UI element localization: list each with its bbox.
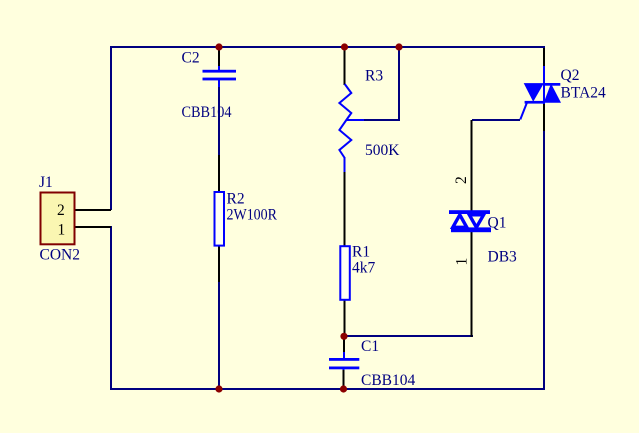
svg-text:DB3: DB3 bbox=[488, 249, 518, 266]
svg-text:1: 1 bbox=[454, 258, 471, 266]
svg-text:R1: R1 bbox=[352, 244, 370, 261]
svg-text:R3: R3 bbox=[365, 68, 383, 85]
svg-text:2: 2 bbox=[453, 176, 470, 184]
svg-text:1: 1 bbox=[58, 222, 66, 239]
svg-text:2: 2 bbox=[57, 202, 65, 219]
svg-text:4k7: 4k7 bbox=[352, 260, 376, 277]
svg-text:R2: R2 bbox=[227, 191, 245, 208]
svg-text:BTA24: BTA24 bbox=[561, 85, 607, 102]
svg-text:500K: 500K bbox=[365, 142, 400, 159]
svg-text:Q2: Q2 bbox=[561, 67, 580, 84]
svg-text:Q1: Q1 bbox=[488, 215, 507, 232]
svg-text:C1: C1 bbox=[361, 338, 379, 355]
svg-text:C2: C2 bbox=[182, 50, 200, 67]
svg-text:2W100R: 2W100R bbox=[227, 207, 278, 224]
svg-text:CON2: CON2 bbox=[40, 247, 80, 264]
svg-text:CBB104: CBB104 bbox=[182, 104, 232, 121]
svg-text:CBB104: CBB104 bbox=[361, 372, 416, 389]
svg-text:J1: J1 bbox=[39, 174, 53, 191]
